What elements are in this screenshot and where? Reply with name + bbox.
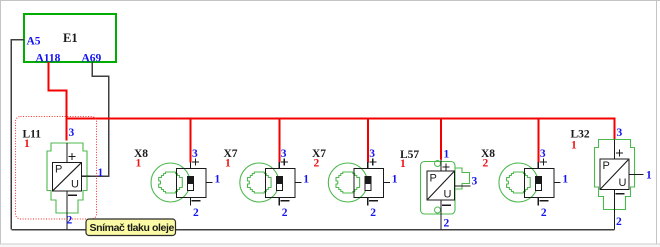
svg-text:3: 3 xyxy=(540,148,546,160)
svg-text:2: 2 xyxy=(193,207,199,219)
label L32 minus polarity mark xyxy=(616,193,625,195)
svg-text:2: 2 xyxy=(616,216,622,228)
svg-text:3: 3 xyxy=(281,148,287,160)
connector X7 symbol xyxy=(328,163,383,202)
wire L11 pin 1 lead xyxy=(82,175,91,177)
connector X7 symbol xyxy=(240,163,295,202)
svg-text:1: 1 xyxy=(98,167,104,179)
svg-text:2: 2 xyxy=(67,215,73,227)
label X8 plus polarity mark xyxy=(540,159,547,166)
svg-text:1: 1 xyxy=(562,174,568,186)
wire L57 pin 3 lead xyxy=(455,185,471,187)
connector housing L57 (green outline with key circles) xyxy=(421,161,470,215)
svg-text:3: 3 xyxy=(192,148,198,160)
label X7 minus polarity mark xyxy=(369,200,378,202)
label L11 minus polarity mark xyxy=(68,194,77,196)
wire from E1 pin A69 to L11 pin 1 xyxy=(82,62,109,176)
wire L32 pin 1 lead xyxy=(629,174,644,176)
wire red drop to X8 (second) xyxy=(537,119,539,163)
label X8 minus polarity mark xyxy=(192,200,201,202)
svg-text:1: 1 xyxy=(444,149,450,161)
svg-text:1: 1 xyxy=(215,174,221,186)
wire X7 pin 2 stub xyxy=(367,197,369,206)
label L57 plus polarity mark xyxy=(443,164,450,171)
svg-text:2: 2 xyxy=(444,218,450,230)
wire X7 pin 1 stub xyxy=(383,182,390,184)
wire X7 pin 2 stub xyxy=(278,197,280,206)
transducer box L57 (P/U element) xyxy=(427,171,455,201)
wire X8 pin 2 stub xyxy=(537,197,539,206)
connector X8 symbol xyxy=(151,163,206,202)
svg-text:A5: A5 xyxy=(27,36,41,48)
svg-text:1: 1 xyxy=(136,158,142,170)
connector housing L32 (green plug outline) xyxy=(595,140,635,210)
wire L57 bottom lead xyxy=(440,200,442,230)
svg-text:1: 1 xyxy=(400,158,406,170)
svg-text:P: P xyxy=(430,173,437,185)
location boundary L11 (red dashed) xyxy=(16,117,97,220)
svg-text:3: 3 xyxy=(472,176,478,188)
svg-text:3: 3 xyxy=(69,127,75,139)
label L57 minus polarity mark xyxy=(442,204,451,206)
connector housing L11 (green plug outline) xyxy=(47,143,87,213)
svg-text:2: 2 xyxy=(282,207,288,219)
wire L32 top lead xyxy=(614,140,616,159)
svg-text:1: 1 xyxy=(225,158,231,170)
label X8 minus polarity mark xyxy=(539,200,548,202)
svg-text:3: 3 xyxy=(617,127,623,139)
svg-text:U: U xyxy=(444,189,452,201)
connector X8 symbol xyxy=(499,163,554,202)
label X7 plus polarity mark xyxy=(369,159,376,166)
wire X8 pin 1 stub xyxy=(206,182,213,184)
wire X7 pin 1 stub xyxy=(295,182,302,184)
svg-text:3: 3 xyxy=(369,148,375,160)
svg-text:2: 2 xyxy=(314,158,320,170)
wire ground return (bottom) xyxy=(11,229,614,231)
svg-text:Snímač tlaku oleje: Snímač tlaku oleje xyxy=(90,222,175,234)
wire L57 top lead xyxy=(440,160,442,172)
svg-text:1: 1 xyxy=(571,140,577,152)
transducer box L32 (P/U element) xyxy=(600,159,629,190)
transducer box L11 (P/U element) xyxy=(53,163,82,192)
wire X8 pin 3 lead (black) xyxy=(190,162,192,168)
wire from E1 pin A5 to ground return (left drop) xyxy=(11,40,24,230)
wire red drop to L11 xyxy=(66,119,68,141)
wire red drop to X8 (first) xyxy=(190,119,192,163)
svg-text:P: P xyxy=(603,160,610,172)
wire X7 pin 3 lead (black) xyxy=(367,162,369,168)
svg-text:2: 2 xyxy=(483,158,489,170)
label L32 plus polarity mark xyxy=(616,150,623,157)
label X8 plus polarity mark xyxy=(192,159,199,166)
label X7 plus polarity mark xyxy=(281,159,288,166)
svg-text:1: 1 xyxy=(392,174,398,186)
wire red drop to L57 xyxy=(440,119,442,160)
svg-text:P: P xyxy=(55,164,62,176)
svg-text:U: U xyxy=(71,179,79,191)
svg-text:1: 1 xyxy=(646,170,652,182)
wire red supply bus xyxy=(67,118,616,120)
wire X8 pin 3 lead (black) xyxy=(537,162,539,168)
wire red drop to X7 (second) xyxy=(367,119,369,163)
wire L32 bottom lead xyxy=(614,189,616,230)
wire L11 bottom lead xyxy=(66,191,68,230)
wire X8 pin 1 stub xyxy=(554,182,561,184)
svg-text:1: 1 xyxy=(303,174,309,186)
wire red drop to L32 xyxy=(614,118,616,141)
svg-text:E1: E1 xyxy=(63,31,78,45)
control unit E1 xyxy=(24,14,116,62)
wire X8 pin 2 stub xyxy=(190,197,192,206)
label L11 plus polarity mark xyxy=(69,153,76,160)
label X7 minus polarity mark xyxy=(280,200,289,202)
svg-text:2: 2 xyxy=(370,207,376,219)
svg-text:2: 2 xyxy=(541,207,547,219)
wire red drop to X7 (first) xyxy=(278,119,280,163)
svg-text:1: 1 xyxy=(24,138,30,150)
wire X7 pin 3 lead (black) xyxy=(278,162,280,168)
wire from E1 pin A118 (red supply feed) xyxy=(49,62,67,119)
tooltip: Snímač tlaku oleje (function text of L11) xyxy=(86,219,176,236)
svg-text:U: U xyxy=(619,177,627,189)
wire L11 top lead xyxy=(66,143,68,162)
